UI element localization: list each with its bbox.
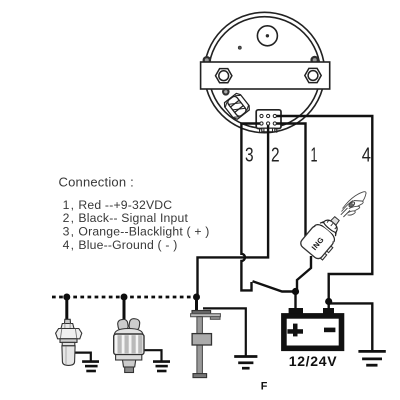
svg-text:12/24V: 12/24V — [289, 353, 338, 369]
svg-text:Connection :: Connection : — [59, 175, 134, 190]
svg-text:2,Black-- Signal Input: 2,Black-- Signal Input — [63, 211, 189, 225]
svg-text:3: 3 — [245, 144, 254, 166]
svg-text:4,Blue--Ground ( - ): 4,Blue--Ground ( - ) — [63, 238, 178, 252]
svg-text:3,Orange--Blacklight ( + ): 3,Orange--Blacklight ( + ) — [63, 225, 210, 239]
svg-text:2: 2 — [271, 144, 280, 166]
svg-text:4: 4 — [362, 144, 371, 166]
svg-text:F: F — [261, 381, 268, 393]
svg-text:1: 1 — [311, 144, 318, 166]
svg-text:1,Red --+9-32VDC: 1,Red --+9-32VDC — [63, 198, 173, 212]
